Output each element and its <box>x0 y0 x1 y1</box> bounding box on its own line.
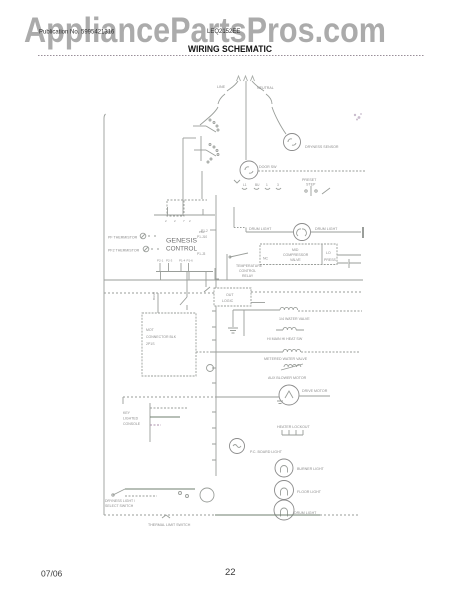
svg-text:RELAY: RELAY <box>242 274 254 278</box>
svg-text:P2-1: P2-1 <box>157 259 164 263</box>
svg-text:DRIVE MOTOR: DRIVE MOTOR <box>302 389 328 393</box>
svg-text:DRUM LIGHT: DRUM LIGHT <box>249 227 272 231</box>
svg-text:METERED WATER VALVE: METERED WATER VALVE <box>264 357 308 361</box>
svg-text:P1-2: P1-2 <box>201 229 208 233</box>
svg-text:2: 2 <box>174 219 176 223</box>
svg-text:DRUM LIGHT: DRUM LIGHT <box>294 511 317 515</box>
svg-text:BURNER LIGHT: BURNER LIGHT <box>297 467 325 471</box>
svg-text:PF2 THERMISTOR: PF2 THERMISTOR <box>108 249 140 253</box>
svg-text:22: 22 <box>225 567 236 578</box>
svg-text:DRUM LIGHT: DRUM LIGHT <box>315 227 338 231</box>
svg-text:LIGHTED: LIGHTED <box>123 417 139 421</box>
svg-text:BU: BU <box>255 183 260 187</box>
svg-text:7: 7 <box>183 219 185 223</box>
svg-text:PRESS: PRESS <box>324 258 337 262</box>
svg-text:LINE: LINE <box>217 85 226 89</box>
svg-text:LEQ2152EE: LEQ2152EE <box>207 29 240 35</box>
svg-text:P.C. BOARD LIGHT: P.C. BOARD LIGHT <box>250 450 283 454</box>
svg-text:BU/W: BU/W <box>152 292 156 300</box>
svg-text:OUT: OUT <box>226 293 234 297</box>
svg-text:DRYNESS SENSOR: DRYNESS SENSOR <box>305 145 339 149</box>
svg-text:P1-4: P1-4 <box>179 259 186 263</box>
svg-text:NC: NC <box>263 257 269 261</box>
svg-text:AUX BLOWER MOTOR: AUX BLOWER MOTOR <box>268 376 307 380</box>
svg-text:CONTROL: CONTROL <box>166 247 198 253</box>
svg-text:HI MAIN HI HEAT SW: HI MAIN HI HEAT SW <box>267 337 303 341</box>
svg-text:GENESIS: GENESIS <box>166 239 197 245</box>
svg-text:P1-J3: P1-J3 <box>197 252 206 256</box>
svg-text:CONSOLE: CONSOLE <box>123 422 141 426</box>
svg-text:DRYNESS LIGHT /: DRYNESS LIGHT / <box>105 499 135 503</box>
svg-text:CONNECTOR BLK: CONNECTOR BLK <box>146 335 177 339</box>
svg-text:P2-3: P2-3 <box>166 259 173 263</box>
svg-text:LO: LO <box>326 251 331 255</box>
svg-text:DOOR SW: DOOR SW <box>259 165 277 169</box>
svg-text:2: 2 <box>189 219 191 223</box>
svg-text:COMPRESSOR: COMPRESSOR <box>283 253 309 257</box>
svg-text:1/4 WATER VALVE: 1/4 WATER VALVE <box>279 317 310 321</box>
svg-text:HEATER LOCKOUT: HEATER LOCKOUT <box>277 425 310 429</box>
svg-text:2: 2 <box>165 219 167 223</box>
svg-text:07/06: 07/06 <box>41 569 63 579</box>
svg-text:THERMAL LIMIT SWITCH: THERMAL LIMIT SWITCH <box>148 523 191 527</box>
svg-text:STEP: STEP <box>306 183 316 187</box>
svg-text:PRESET: PRESET <box>302 178 317 182</box>
svg-text:WIRING SCHEMATIC: WIRING SCHEMATIC <box>188 44 272 55</box>
svg-text:NEUTRAL: NEUTRAL <box>257 86 274 90</box>
svg-text:CONTROL: CONTROL <box>239 269 256 273</box>
svg-text:L1: L1 <box>243 183 247 187</box>
svg-text:Publication No. 5995421316: Publication No. 5995421316 <box>39 30 115 36</box>
svg-text:TEMPERATURE: TEMPERATURE <box>236 264 263 268</box>
svg-text:FLOOR LIGHT: FLOOR LIGHT <box>297 490 322 494</box>
svg-text:VALVE: VALVE <box>290 258 301 262</box>
svg-text:P1-6: P1-6 <box>187 259 194 263</box>
svg-text:3: 3 <box>277 183 279 187</box>
svg-text:LOGIC: LOGIC <box>222 299 234 303</box>
svg-text:PF THERMISTOR: PF THERMISTOR <box>108 236 138 240</box>
svg-text:SELECT SWITCH: SELECT SWITCH <box>105 504 134 508</box>
svg-text:MOT: MOT <box>146 328 155 332</box>
svg-text:KEY: KEY <box>123 411 131 415</box>
svg-text:MID: MID <box>292 248 299 252</box>
svg-text:1: 1 <box>266 183 268 187</box>
svg-text:P1-J10: P1-J10 <box>197 235 207 239</box>
svg-text:2P1S: 2P1S <box>146 342 155 346</box>
